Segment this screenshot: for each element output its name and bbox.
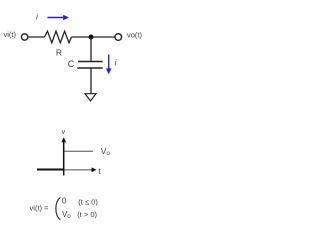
svg-text:v: v [62, 129, 66, 136]
terminal output [115, 34, 122, 41]
wire input to resistor [28, 36, 44, 38]
current arrow capacitor [106, 55, 112, 75]
svg-text:Vo: Vo [101, 146, 111, 157]
junction node [89, 35, 94, 40]
v axis [63, 141, 65, 176]
wire node to capacitor [90, 37, 92, 61]
svg-text:i: i [36, 11, 39, 21]
signal zero segment [37, 169, 64, 171]
t axis [64, 169, 92, 171]
svg-text:R: R [56, 48, 62, 58]
capacitor C [77, 62, 103, 69]
svg-text:C: C [68, 59, 75, 69]
t axis arrowhead [92, 167, 97, 172]
svg-text:i: i [114, 57, 117, 67]
v axis arrowhead [61, 137, 66, 142]
svg-text:vi(t) =: vi(t) = [30, 204, 50, 213]
svg-text:vi(t): vi(t) [4, 30, 17, 39]
svg-text:t: t [98, 166, 101, 176]
svg-text:0: 0 [62, 196, 67, 205]
svg-text:Vo: Vo [62, 210, 71, 220]
svg-text:vo(t): vo(t) [127, 30, 143, 39]
terminal input [21, 34, 27, 40]
resistor R [45, 31, 72, 43]
wire capacitor to ground [90, 68, 92, 94]
current arrow top [48, 15, 70, 21]
step level Vo [64, 150, 93, 152]
formula parenthesis [56, 197, 60, 220]
svg-text:(t ≤ 0): (t ≤ 0) [78, 197, 98, 206]
svg-text:(t > 0): (t > 0) [77, 210, 97, 219]
ground [85, 94, 96, 101]
wire resistor to output [72, 36, 115, 38]
